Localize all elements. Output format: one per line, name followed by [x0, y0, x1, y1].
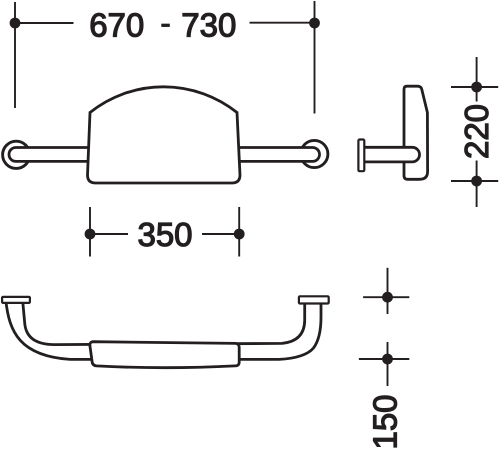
svg-text:730: 730 [181, 7, 236, 44]
front view: backrest cushion [88, 87, 241, 183]
dimension dot bottom 220 [471, 176, 482, 187]
dimension dot right 670-730 [309, 18, 320, 29]
top view: cushion pad [90, 342, 239, 368]
dimension 150 upper cross vertical line [387, 268, 389, 314]
dimension 150 lower cross vertical line [387, 342, 389, 386]
dimension line 350 left segment [90, 233, 128, 235]
extension tick top of dim 220 [451, 86, 498, 88]
extension tick bottom of dim 220 [451, 180, 498, 182]
dimension 150 upper cross tick [363, 296, 409, 298]
dimension text 670-730 dash [161, 24, 170, 27]
side view: grab bar with rounded end [364, 147, 420, 162]
dimension dot left 670-730 [10, 18, 21, 29]
top view: left wall flange plate [2, 297, 30, 303]
front view: grab bar [9, 148, 320, 162]
extension line right of dim 670-730 [314, 1, 316, 114]
dimension dot left 350 [85, 229, 96, 240]
dimension dot right 350 [234, 229, 245, 240]
svg-text:150: 150 [367, 394, 404, 449]
top view: grab bar tube [6, 300, 321, 359]
dimension line 220 lower segment [476, 161, 478, 208]
side view: wall mounting plate [358, 140, 364, 172]
extension tick left of dim 350 [89, 207, 91, 257]
dimension 150 upper dot [382, 292, 393, 303]
side view: backrest cushion profile [404, 86, 428, 179]
svg-text:670: 670 [89, 7, 144, 44]
dimension line 670-730 right segment [250, 22, 315, 24]
dimension dot top 220 [471, 82, 482, 93]
dimension line 670-730 left segment [15, 22, 74, 24]
extension line left of dim 670-730 [14, 2, 16, 108]
dimension 150 lower cross tick [359, 358, 409, 360]
dimension line 350 right segment [202, 233, 240, 235]
top view: right wall flange plate [299, 296, 329, 303]
front view: right wall flange circle [301, 140, 328, 167]
front view: left wall flange circle [3, 141, 30, 168]
svg-text:220: 220 [458, 104, 495, 159]
svg-text:350: 350 [137, 216, 192, 253]
dimension line 220 upper segment [476, 57, 478, 102]
dimension 150 lower dot [382, 354, 393, 365]
extension tick right of dim 350 [238, 207, 240, 257]
